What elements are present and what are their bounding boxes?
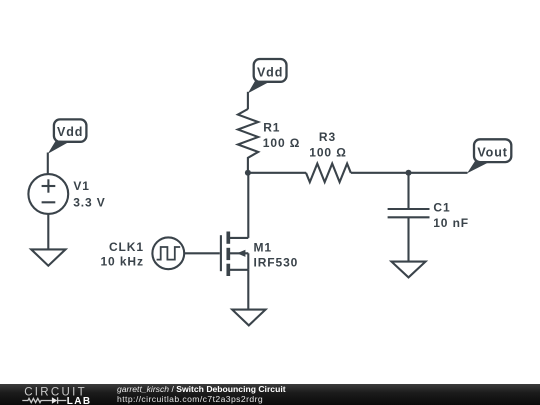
wire V1 to ground	[47, 214, 49, 249]
net label Vdd at R1	[248, 59, 287, 93]
CircuitLab logo	[22, 387, 91, 405]
ground V1	[31, 249, 65, 265]
wire R3 to node B	[351, 172, 409, 174]
svg-text:garrett_kirsch / Switch Deboun: garrett_kirsch / Switch Debouncing Circu…	[117, 384, 286, 394]
net label Vout	[467, 139, 511, 173]
svg-text:LAB: LAB	[67, 396, 92, 405]
svg-text:http://circuitlab.com/c7t2a3ps: http://circuitlab.com/c7t2a3ps2rdrg	[117, 394, 263, 404]
clock source CLK1	[100, 237, 184, 269]
wire node A to R3	[248, 172, 306, 174]
svg-text:V1: V1	[73, 179, 89, 193]
svg-text:10 nF: 10 nF	[433, 216, 469, 230]
node B junction	[406, 170, 412, 176]
voltage source V1	[28, 174, 105, 214]
svg-text:10 kHz: 10 kHz	[100, 255, 143, 269]
svg-text:R1: R1	[263, 120, 280, 134]
wire node B to Vout	[409, 172, 468, 174]
svg-text:M1: M1	[254, 240, 272, 254]
svg-text:3.3 V: 3.3 V	[73, 195, 106, 209]
wire C1 to ground	[407, 217, 409, 261]
footer bar	[0, 384, 540, 405]
svg-text:Vout: Vout	[477, 145, 507, 159]
resistor R1	[238, 109, 258, 173]
svg-text:Vdd: Vdd	[57, 125, 83, 139]
resistor R3	[306, 164, 351, 183]
capacitor C1	[388, 201, 469, 230]
svg-text:R3: R3	[319, 130, 336, 144]
net label Vdd at V1	[48, 119, 87, 153]
ground C1	[392, 262, 426, 278]
wire source to ground	[247, 270, 249, 309]
node A junction	[245, 170, 251, 176]
wire drain to node A	[247, 173, 249, 238]
svg-text:100 Ω: 100 Ω	[263, 136, 300, 150]
svg-text:CLK1: CLK1	[109, 240, 144, 254]
wire Vdd to V1	[47, 153, 49, 175]
ground M1	[232, 310, 265, 326]
svg-text:100 Ω: 100 Ω	[309, 146, 346, 160]
svg-text:Vdd: Vdd	[257, 65, 283, 79]
svg-text:C1: C1	[433, 201, 450, 215]
svg-text:IRF530: IRF530	[254, 255, 299, 269]
wire node B to C1	[407, 173, 409, 209]
wire CLK1 to gate	[184, 252, 220, 254]
wire Vdd to R1	[247, 92, 249, 109]
transistor M1	[221, 232, 298, 277]
